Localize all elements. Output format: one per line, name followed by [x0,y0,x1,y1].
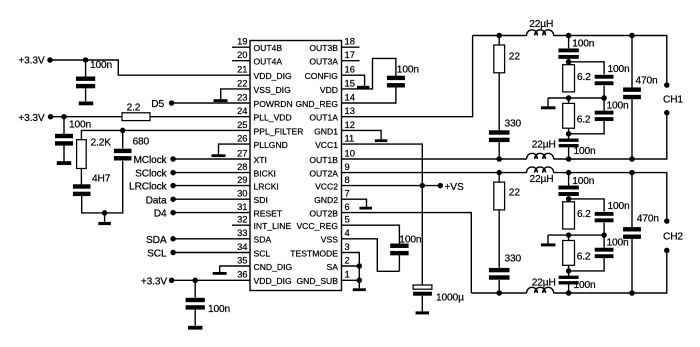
svg-text:16: 16 [345,64,355,75]
capacitor C4 100n [387,76,405,88]
node junction PPL_FILTER/C 680 [120,128,126,134]
svg-text:RESET: RESET [254,209,283,219]
ground ground GND1 [375,139,388,142]
wire CH2 470n top lead [631,173,633,228]
wire CH2 C-par upper to node C [603,223,605,235]
node junction CH2 top/470n [629,170,635,176]
svg-text:+3.3V: +3.3V [141,276,168,287]
wire R 2.2 to pin24 PLL_VDD [150,116,250,118]
capacitor C 100n CH2 par upper [595,212,614,222]
wire CH1 C to C-par lower [603,98,605,111]
svg-text:10: 10 [345,147,355,158]
ground ground C1 [79,102,94,106]
node junction CH1 top/470n [629,33,635,39]
capacitor C 100n CH1 D [559,139,579,148]
svg-text:GND1: GND1 [314,126,338,136]
node junction CH2 C right [601,232,607,238]
svg-text:OUT3A: OUT3A [309,57,338,67]
wire stub p32 [232,224,250,226]
svg-text:30: 30 [237,188,247,199]
wire pin6 OUT2B riser [342,213,472,293]
svg-text:100n: 100n [608,201,630,212]
wire net D4 to pin31 [173,212,250,214]
op-amp U1 (PWM audio processor IC body) [250,41,342,291]
node SCL terminal [170,250,176,256]
capacitor C2 100n [55,134,73,146]
node terminal CH1 + [664,82,670,88]
inductor L 22uH CH1 top [527,30,554,36]
svg-text:22: 22 [237,77,247,88]
wire CH2 node C bus [548,234,604,236]
svg-text:100n: 100n [574,280,596,291]
svg-text:VCC_REG: VCC_REG [296,221,338,231]
svg-text:1: 1 [345,269,350,280]
ground ground CH2 filter [541,243,556,246]
wire C1 bottom lead [85,88,87,102]
svg-text:11: 11 [345,133,355,144]
wire CH1 C-par upper to node C [603,86,605,98]
svg-text:GND2: GND2 [314,195,338,205]
ground ground VSS_DIG [214,99,228,102]
node junction +3.3V3/C3 [192,278,198,284]
svg-text:22µH: 22µH [529,19,553,30]
resistor R 22 CH2 [494,182,505,210]
svg-text:OUT3B: OUT3B [309,43,338,53]
wire CH1 bottom rail left [342,158,527,160]
wire stub p20 [232,60,250,62]
wire CH1 C-par lower to node D [569,121,605,134]
wire CH2 R-lower bottom stem [568,265,570,271]
wire net SCL to pin34 [173,252,250,254]
wire C4 to pin14 GND_REG [342,87,396,103]
svg-text:34: 34 [237,241,247,252]
resistor R 6.2 CH1 upper [563,65,575,92]
wire net D5 to pin23 POWRDN [172,102,250,104]
svg-text:OUT1A: OUT1A [309,113,338,123]
node junction CH1 bottom/C330 [496,156,502,162]
node node CH2 E [566,290,572,296]
resistor R 6.2 CH2 upper [563,202,575,229]
capacitor C 100n CH2 par lower [595,248,614,258]
capacitor C 100n CH2 D [559,276,579,285]
wire L 4H7 bottom to C 680 bottom [82,161,123,213]
svg-text:+3.3V: +3.3V [18,55,45,66]
wire CH2 B to C-par upper [569,199,605,212]
svg-text:19: 19 [237,36,247,47]
capacitor C 100n CH1 par upper [595,75,614,85]
wire CH1 bottom rail right [553,113,666,159]
svg-text:OUT1B: OUT1B [309,155,338,165]
svg-text:100n: 100n [572,39,594,50]
wire C3 bottom lead [194,310,196,326]
svg-text:470n: 470n [637,214,659,225]
svg-text:GND_REG: GND_REG [296,99,339,109]
wire pin35 CND_DIG to ground [220,266,250,272]
svg-text:+3.3V: +3.3V [18,113,45,124]
svg-text:17: 17 [345,49,355,60]
node junction CH1 bottom/470n [629,156,635,162]
wire CH1 C-A bottom lead [568,59,570,62]
svg-text:470n: 470n [636,75,658,86]
svg-text:GND_SUB: GND_SUB [296,276,338,286]
node +VS terminal [438,183,444,189]
node terminal CH2 + [664,218,670,224]
wire pin12 GND1 to ground [342,130,382,139]
svg-text:INT_LINE: INT_LINE [254,221,292,231]
svg-text:100n: 100n [607,101,629,112]
svg-text:22: 22 [509,187,521,198]
svg-text:CND_DIG: CND_DIG [254,262,293,272]
wire net MClock to pin27 [173,158,250,160]
resistor R 6.2 CH1 lower [563,103,575,128]
capacitor C3 100n [186,298,205,310]
wire CH2 top rail left [342,172,527,174]
svg-text:33: 33 [237,227,247,238]
node +3.3V terminal 3 [169,278,175,284]
ground ground GND2 [359,207,372,210]
wire CH1 C-D top lead [568,134,570,139]
svg-text:6.2: 6.2 [577,114,591,125]
svg-text:100n: 100n [69,119,91,130]
svg-text:3: 3 [345,241,350,252]
svg-text:32: 32 [237,214,247,225]
node node CH1 A [566,33,572,39]
svg-text:OUT4A: OUT4A [254,57,283,67]
svg-text:680: 680 [133,136,150,147]
svg-text:LRCKI: LRCKI [254,182,279,192]
svg-text:VSS_DIG: VSS_DIG [254,85,292,95]
node SClock terminal [170,170,176,176]
wire CH2 R22 top stem [498,173,500,183]
svg-text:OUT2A: OUT2A [309,169,338,179]
svg-text:SDI: SDI [254,195,268,205]
svg-text:CH2: CH2 [663,231,683,242]
svg-text:29: 29 [237,174,247,185]
capacitor C 470n CH2 [623,227,641,239]
svg-text:VDD_DIG: VDD_DIG [254,276,293,286]
node MClock terminal [170,156,176,162]
capacitor C 100n CH1 A [558,48,578,58]
wire C2 top lead [63,117,65,134]
wire net +3.3V to pin21 VDD_DIG [50,60,250,75]
svg-text:MClock: MClock [133,155,167,166]
capacitor C 1000u electrolytic [413,285,432,296]
node node CH2 D [566,268,572,274]
svg-text:21: 21 [237,64,247,75]
svg-text:31: 31 [237,201,247,212]
svg-text:36: 36 [237,269,247,280]
node +3.3V terminal 2 [48,114,54,120]
ground ground C2 [57,161,72,165]
svg-text:28: 28 [237,161,247,172]
wire net SClock to pin28 [173,172,250,174]
svg-text:8: 8 [345,174,350,185]
svg-text:SDA: SDA [254,235,272,245]
wire net +3.3V3 to pin36 VDD_DIG [172,279,250,281]
wire CH2 C-D bottom lead [568,284,570,293]
inductor L 22uH CH2 top [527,167,554,173]
wire pin22 VSS_DIG to ground [221,89,250,99]
svg-text:22µH: 22µH [530,174,554,185]
wire stub p18 [342,46,360,48]
svg-text:CH1: CH1 [663,95,683,106]
capacitor C5 100n [390,244,408,256]
wire net Data to pin30 [173,198,250,200]
wire C 680 top lead [122,130,124,148]
svg-text:VDD_DIG: VDD_DIG [254,71,293,81]
node junction CH2 bottom/470n [629,290,635,296]
node junction CH2 bottom/C330 [496,290,502,296]
node node CH1 E [566,156,572,162]
node junction bottom/ground [102,210,108,216]
wire ground lead [104,213,106,222]
svg-text:330: 330 [505,119,522,130]
node terminal CH2 - [664,248,670,254]
wire CH2 C-par lower to node D [569,258,605,271]
svg-text:25: 25 [237,119,247,130]
wire CH1 R22 top stem [498,36,500,46]
node junction +VS rail/VCC2 [420,183,426,189]
node D4 terminal [170,210,176,216]
capacitor C 100n CH2 A [558,186,578,196]
svg-text:6.2: 6.2 [577,251,591,262]
wire CH2 C-A bottom lead [568,196,570,199]
resistor R 6.2 CH2 lower [563,241,575,266]
wire CH1 ground lead [547,98,549,106]
wire CH2 bottom rail right [553,250,666,293]
wire CH1 C-D bottom lead [568,147,570,159]
wire CH1 470n bottom lead [631,99,633,159]
svg-text:9: 9 [345,161,350,172]
svg-text:D5: D5 [151,99,164,110]
wire CH2 top rail right [553,173,666,222]
svg-text:13: 13 [345,105,355,116]
wire CH2 C-D top lead [568,271,570,276]
wire CH1 B to C-par upper [569,62,605,75]
svg-text:D4: D4 [154,209,167,220]
svg-text:2.2K: 2.2K [91,137,112,148]
svg-text:2.2: 2.2 [127,102,141,113]
wire C5 bottom lead [398,255,400,272]
wire pin3 TESTMODE down [342,253,360,289]
wire CH2 C330 to bottom rail [498,280,500,293]
resistor R 22 CH1 [494,45,505,73]
wire CH1 R-lower bottom stem [568,128,570,134]
svg-text:26: 26 [237,133,247,144]
wire CH2 R-lower top stem [568,235,570,240]
svg-text:VCC2: VCC2 [315,182,338,192]
ground ground CH1 filter [541,106,556,109]
wire pin11 VCC1 down +VS rail to C 1000u [342,144,423,285]
capacitor C 330 CH2 [489,268,510,280]
wire pin8 VCC2 to +VS [342,185,441,187]
node node CH1 D [566,131,572,137]
wire pin13 OUT1A riser [342,36,473,117]
svg-text:4: 4 [345,227,350,238]
resistor R 2.2 ohm [122,113,150,121]
node junction +3.3V/C1 [83,57,89,63]
inductor L 22uH CH2 bottom [527,287,554,293]
svg-text:100n: 100n [399,234,421,245]
svg-text:XTI: XTI [254,155,267,165]
node junction CH1 C right [601,95,607,101]
inductor L 22uH CH1 bottom [527,153,554,159]
node node CH1 B [566,59,572,65]
svg-text:100n: 100n [607,238,629,249]
svg-text:SDA: SDA [146,235,167,246]
wire net pin25 PPL_FILTER to R 2.2K [81,130,250,139]
svg-text:23: 23 [237,91,247,102]
svg-text:SClock: SClock [135,169,167,180]
node node CH2 C [566,232,572,238]
svg-text:35: 35 [237,254,247,265]
svg-text:OUT2B: OUT2B [309,209,338,219]
capacitor C 680 [114,149,132,161]
ground ground CND_DIG [213,272,227,275]
svg-text:15: 15 [345,77,355,88]
svg-text:TESTMODE: TESTMODE [290,248,338,258]
node +3.3V terminal 1 [47,57,53,63]
svg-text:6: 6 [345,201,350,212]
wire C 1000u bottom lead [421,296,423,312]
wire net LRClock to pin29 [173,185,250,187]
node node CH2 B [566,196,572,202]
ground ground PLLGND [212,154,226,157]
wire CH2 bottom rail left [471,292,527,294]
svg-text:22µH: 22µH [532,278,556,289]
wire CH1 R22 to C330 [498,73,500,131]
wire pin1 GND_SUB stub [342,279,360,281]
wire stub p17 [342,60,360,62]
ground ground PLL filter [98,222,111,225]
wire net SDA to pin33 [173,238,250,240]
node junction SA [357,263,363,269]
capacitor C1 100n [76,77,95,89]
ground ground CONFIG [357,86,370,89]
node junction +3.3V2/C2 [61,114,67,120]
svg-text:330: 330 [505,254,522,265]
wire CH1 R-lower top stem [568,98,570,103]
capacitor C 330 CH1 [489,130,510,142]
wire CH2 C to C-par lower [603,235,605,248]
svg-text:2: 2 [345,254,350,265]
ground ground TESTMODE/SA/GND_SUB [353,288,366,291]
wire CH1 470n top lead [631,36,633,88]
svg-text:SA: SA [327,262,339,272]
svg-text:PLLGND: PLLGND [254,140,288,150]
node LRClock terminal [170,183,176,189]
node node CH2 A [566,170,572,176]
svg-text:POWRDN: POWRDN [254,99,293,109]
wire C3 top lead [194,280,196,298]
svg-text:100n: 100n [397,64,419,75]
wire C2 bottom lead [63,146,65,162]
wire pin7 GND2 to ground [342,199,367,207]
wire CH1 top rail left [473,35,527,37]
svg-text:VSS: VSS [321,235,338,245]
node D5 terminal [169,100,175,106]
svg-text:6.2: 6.2 [577,72,591,83]
svg-text:7: 7 [345,188,350,199]
wire net +3.3V2 to R 2.2 [51,116,122,118]
wire CH1 C-A top lead [568,36,570,49]
resistor R 2.2K [77,140,87,169]
svg-text:100n: 100n [572,176,594,187]
svg-text:100n: 100n [574,146,596,157]
wire CH1 top rail right [553,36,666,86]
node Data terminal [170,196,176,202]
wire R 2.2K to L 4H7 [80,169,82,185]
ground ground C3 [188,326,203,330]
svg-text:1000µ: 1000µ [436,293,464,304]
svg-text:12: 12 [345,119,355,130]
svg-text:27: 27 [237,147,247,158]
wire CH2 C-A top lead [568,173,570,186]
svg-text:100n: 100n [608,64,630,75]
capacitor C 470n CH1 [623,87,641,99]
node node CH1 C [566,95,572,101]
node junction CH2 top/R22 [496,170,502,176]
wire pin15 VDD to C4 [342,58,396,89]
svg-text:Data: Data [146,195,167,206]
svg-text:5: 5 [345,214,350,225]
svg-text:PLL_VDD: PLL_VDD [254,113,292,123]
svg-text:SCL: SCL [147,249,167,260]
capacitor L 4H7 (ferrite bead symbol) [73,184,91,196]
wire CH2 R22 to C330 [498,210,500,268]
svg-text:14: 14 [345,91,355,102]
svg-text:4H7: 4H7 [92,173,111,184]
wire CH1 C330 to bottom rail [498,142,500,159]
svg-text:PPL_FILTER: PPL_FILTER [254,126,304,136]
wire stub p19 [232,46,250,48]
node terminal CH1 - [664,110,670,116]
wire pin2 SA stub [342,265,360,267]
wire C1 top lead [85,60,87,77]
svg-text:VDD: VDD [320,85,338,95]
svg-text:18: 18 [345,36,355,47]
svg-text:22µH: 22µH [532,140,556,151]
svg-text:100n: 100n [208,304,230,315]
svg-text:CONFIG: CONFIG [305,71,339,81]
svg-text:100n: 100n [90,60,112,71]
svg-text:LRClock: LRClock [129,182,168,193]
capacitor C 100n CH1 par lower [595,111,614,121]
ground ground C 1000u [416,311,430,314]
wire pin26 PLLGND to ground [219,144,251,154]
svg-text:OUT4B: OUT4B [254,43,283,53]
svg-text:6.2: 6.2 [577,209,591,220]
node junction GND_SUB [357,278,363,284]
wire CH1 node C bus [548,97,604,99]
wire pin16 CONFIG to ground [342,75,365,86]
wire CH2 ground lead [547,235,549,243]
svg-text:22: 22 [509,52,521,63]
node junction CH1 top/R22 [496,33,502,39]
svg-text:24: 24 [237,105,247,116]
node SDA terminal [170,236,176,242]
svg-text:BICKI: BICKI [254,169,276,179]
svg-text:SCL: SCL [254,248,271,258]
wire pin4 VSS to C5 bottom [342,239,400,271]
wire pin5 VCC_REG to C5 [342,225,400,244]
svg-text:20: 20 [237,49,247,60]
svg-text:VCC1: VCC1 [315,140,338,150]
wire CH2 470n bottom lead [631,239,633,293]
svg-text:+VS: +VS [445,182,464,193]
